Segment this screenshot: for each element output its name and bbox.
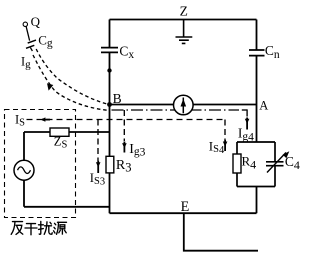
arrowhead Ig4 xyxy=(246,118,248,130)
dashed box anti-interference source xyxy=(5,110,76,218)
label 反干扰源 (hand-drawn strokes) xyxy=(11,221,66,234)
svg-text:A: A xyxy=(259,99,268,113)
wire source left vertical xyxy=(23,132,25,207)
arrowhead Ig on lower curve xyxy=(47,83,53,90)
resistor R3 xyxy=(106,156,114,173)
capacitor Cn xyxy=(249,50,265,56)
wire top bus xyxy=(110,19,257,21)
capacitor Cx xyxy=(101,48,118,53)
node B junction dot xyxy=(107,102,112,107)
arrow C4 variable xyxy=(267,153,286,173)
dashed Ig flux curve upper xyxy=(36,49,108,104)
char 源 xyxy=(54,222,67,234)
ground Z symbol xyxy=(176,20,193,44)
svg-text:Z: Z xyxy=(180,4,188,19)
svg-text:Q: Q xyxy=(31,14,41,29)
dash-dot Ig path B to right xyxy=(112,109,240,111)
arrowhead Is4 xyxy=(224,140,226,151)
wire source bottom xyxy=(24,206,110,208)
arrowhead Is (left pointing) xyxy=(42,119,50,121)
wire E down-stub xyxy=(184,213,258,251)
dashed Ig flux curve lower xyxy=(33,55,107,110)
capacitor C4 plates xyxy=(266,162,284,166)
wire right vertical (node A branch) xyxy=(256,20,258,214)
dashed Is3 drop xyxy=(97,120,99,162)
char 扰 xyxy=(39,221,53,234)
resistor R4 xyxy=(233,154,241,173)
svg-text:R3: R3 xyxy=(116,158,132,175)
arrowhead Is3 xyxy=(97,161,99,173)
wire C4 branch xyxy=(274,142,276,187)
current source U1 xyxy=(174,95,194,115)
dashed Ig3 drop xyxy=(123,110,125,141)
R4 C4 parallel network bottom bus xyxy=(237,186,275,188)
wire bottom bus E xyxy=(110,212,257,214)
arrowhead Ig3 xyxy=(123,142,125,153)
wire B to A horizontal xyxy=(109,104,257,106)
svg-text:E: E xyxy=(181,199,190,215)
impedance Zs xyxy=(50,128,69,136)
wire Zs right to R3 line xyxy=(69,131,110,133)
dashed Is horizontal path xyxy=(27,119,226,121)
wire Q to Cg xyxy=(26,26,32,51)
char 反 xyxy=(11,222,23,235)
wire left vertical (node B branch) xyxy=(109,20,111,214)
dashed Is4 drop xyxy=(224,120,226,141)
char 干 xyxy=(25,224,37,235)
wire R4 branch xyxy=(236,142,238,187)
capacitor Cg (slanted plates) xyxy=(26,40,36,48)
R4 C4 parallel network top bus xyxy=(237,141,275,143)
dash-dot Ig4 drop xyxy=(246,109,248,116)
AC source V1 xyxy=(14,160,34,180)
node junction dot below Cx xyxy=(107,68,111,72)
wire Zs to node B branch xyxy=(24,131,50,133)
svg-text:B: B xyxy=(113,91,122,106)
electrode Q terminal circle xyxy=(23,22,27,26)
